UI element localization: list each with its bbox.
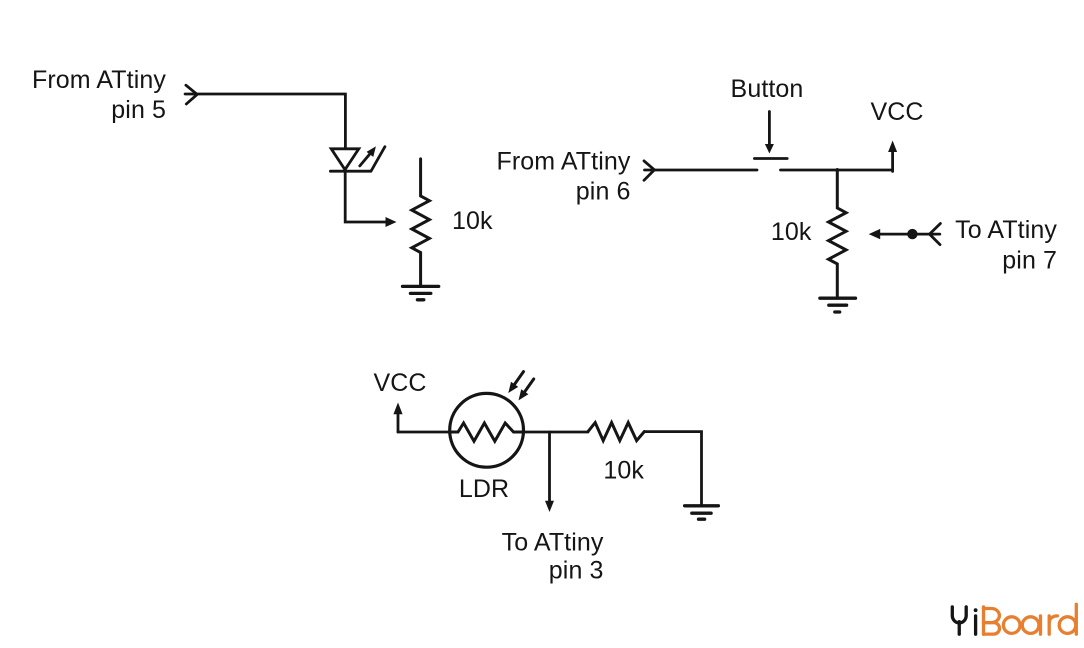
svg-text:LDR: LDR [459,475,509,503]
svg-text:10k: 10k [603,457,644,485]
svg-text:pin 3: pin 3 [549,557,604,585]
svg-text:pin 6: pin 6 [576,178,631,206]
output arrow to ATtiny pin 3 [545,432,554,512]
pushbutton S1 contact bar [754,157,787,160]
svg-text:To ATtiny: To ATtiny [955,216,1057,244]
wire from LDR to resistor R3 [524,431,589,434]
svg-text:Button: Button [731,75,804,103]
node: To ATtiny pin 3 label [502,529,604,585]
node: To ATtiny pin 7 label [955,216,1057,275]
svg-text:pin 5: pin 5 [111,96,166,124]
svg-text:To ATtiny: To ATtiny [502,529,604,557]
wire from pushbutton right contact to VCC corner [781,169,893,172]
wire from VCC arrow to LDR [398,431,452,434]
wire from pin6 input to pushbutton left contact [645,169,758,172]
YiBoard logo [952,604,1076,634]
svg-text:VCC: VCC [374,369,427,397]
wire from resistor R3 to ground [644,432,701,505]
LDR light arrow 1 [508,372,523,393]
output arrow to ATtiny pin 7 (wire with solid head, junction dot, open chevron) [869,224,941,245]
svg-text:From ATtiny: From ATtiny [32,66,166,94]
svg-text:From ATtiny: From ATtiny [497,148,631,176]
ground (circuit 3) [685,506,719,519]
node: From ATtiny pin 5 label [32,66,166,124]
VCC power arrow (circuit 3) [393,403,402,433]
ground (circuit 2) [820,298,856,312]
resistor R2 (vertical 10k) with lead from junction [829,170,847,297]
LED D1 [330,146,385,171]
wire from pin5 input to LED anode [185,94,345,147]
pushbutton S1 actuator arrow [765,112,774,154]
input arrow (open chevron) from ATtiny pin 6 [644,161,654,180]
svg-text:VCC: VCC [871,98,924,126]
svg-text:10k: 10k [452,207,493,235]
LDR (photoresistor) [450,393,524,467]
ground (circuit 1) [403,286,439,299]
resistor R1 (vertical 10k) [412,159,430,286]
wire from LED cathode to resistor R1 (with arrow) [345,171,386,222]
resistor R3 (horizontal 10k) [588,423,644,441]
LDR light arrow 2 [519,379,534,400]
VCC power arrow (circuit 2) [888,141,897,172]
svg-text:pin 7: pin 7 [1002,247,1057,275]
svg-text:10k: 10k [771,218,812,246]
input arrow (open chevron) from ATtiny pin 5 [186,85,197,104]
node: From ATtiny pin 6 label [497,148,631,206]
